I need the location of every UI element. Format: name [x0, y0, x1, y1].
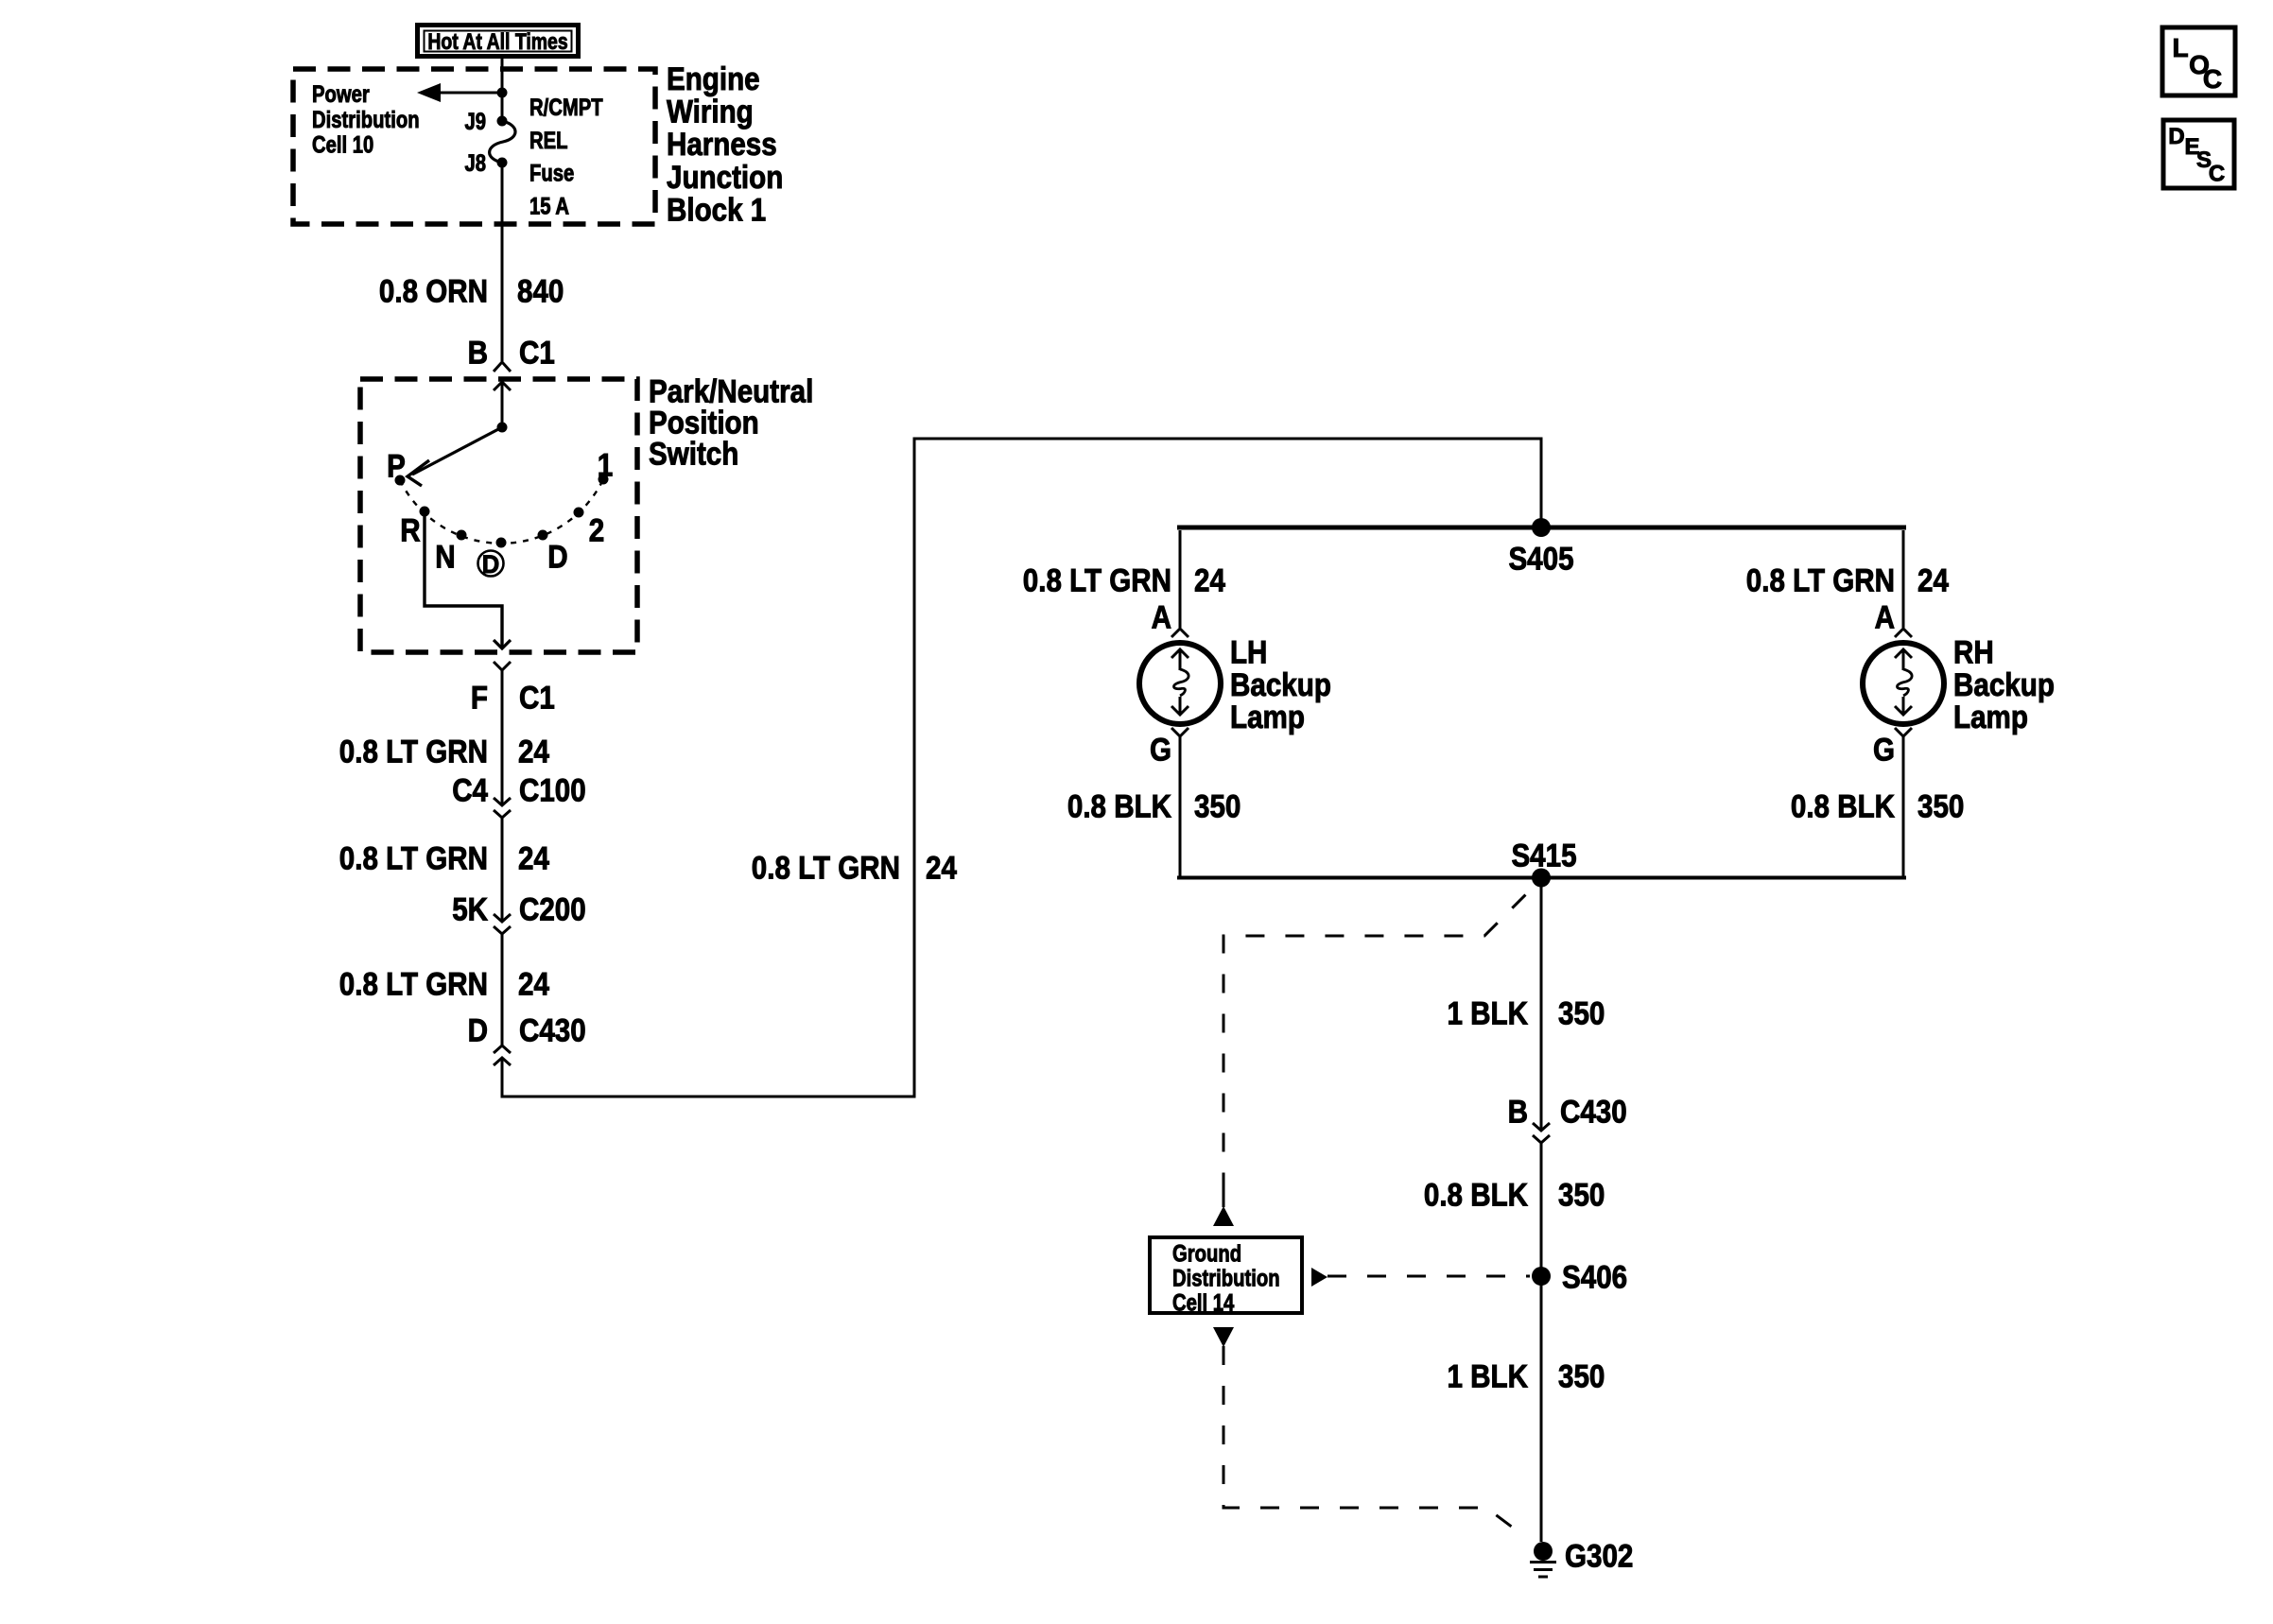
- fuse R/CMPT REL Fuse 15 A element: [490, 121, 515, 163]
- svg-text:5K: 5K: [452, 891, 488, 927]
- svg-text:Backup: Backup: [1953, 667, 2055, 703]
- wire 0.8 LT GRN 24 segment 1: [501, 670, 504, 804]
- svg-text:G: G: [1150, 732, 1171, 768]
- Park/Neutral Position Switch dashed outline: [360, 379, 637, 652]
- Ground Distribution Cell 14 box: [1150, 1237, 1302, 1313]
- svg-text:Switch: Switch: [649, 436, 738, 472]
- svg-text:A: A: [1875, 599, 1895, 635]
- contact P dot: [395, 475, 406, 486]
- switch pivot dot: [497, 423, 508, 433]
- svg-text:350: 350: [1558, 1177, 1605, 1213]
- svg-text:2: 2: [589, 512, 605, 548]
- RH lamp filament down arrow: [1895, 706, 1912, 715]
- svg-text:Distribution: Distribution: [312, 107, 420, 133]
- terminal J9 dot: [497, 116, 508, 127]
- svg-text:C200: C200: [519, 891, 586, 927]
- contact N dot: [457, 530, 467, 541]
- arrowhead at switch output: [494, 640, 511, 648]
- svg-text:350: 350: [1558, 995, 1605, 1031]
- svg-text:C: C: [2203, 64, 2222, 94]
- switch wiper arm: [412, 427, 502, 475]
- svg-text:S405: S405: [1508, 541, 1573, 577]
- dashed arc of switch positions: [400, 479, 603, 544]
- svg-text:C1: C1: [519, 680, 555, 716]
- svg-text:REL: REL: [529, 128, 568, 154]
- svg-text:Lamp: Lamp: [1953, 700, 2028, 735]
- wiper arrowhead toward P: [408, 460, 429, 486]
- lamp LH Backup Lamp: [1139, 643, 1221, 724]
- svg-text:P: P: [387, 448, 406, 484]
- contact 1 dot: [599, 475, 609, 485]
- arrowhead to Power Distribution: [417, 83, 441, 102]
- wire from contact R to switch output: [425, 511, 502, 648]
- svg-text:J8: J8: [465, 150, 487, 177]
- bottom ground rail wire: [1177, 876, 1906, 880]
- svg-text:15 A: 15 A: [529, 194, 569, 220]
- connector C200 arrowhead: [494, 914, 511, 922]
- svg-text:S415: S415: [1511, 838, 1576, 873]
- svg-text:C100: C100: [519, 772, 586, 808]
- Hot At All Times power label box: [418, 26, 579, 57]
- ground G302 dot: [1534, 1542, 1553, 1561]
- svg-text:24: 24: [926, 850, 957, 886]
- svg-text:Block 1: Block 1: [667, 193, 766, 229]
- wire to switch pivot: [501, 382, 504, 427]
- svg-text:C430: C430: [1560, 1094, 1627, 1130]
- svg-text:D: D: [482, 550, 500, 579]
- svg-text:840: 840: [517, 273, 564, 309]
- svg-text:RH: RH: [1953, 634, 1994, 670]
- svg-text:B: B: [468, 335, 488, 371]
- svg-text:N: N: [435, 539, 455, 575]
- svg-text:S406: S406: [1562, 1259, 1627, 1295]
- DESC reference box: [2163, 120, 2234, 188]
- svg-text:0.8 BLK: 0.8 BLK: [1424, 1177, 1528, 1213]
- svg-text:C: C: [2209, 162, 2225, 187]
- LH lamp filament upper lead: [1179, 649, 1182, 670]
- svg-text:0.8 BLK: 0.8 BLK: [1067, 788, 1171, 824]
- ground symbol G302: [1530, 1561, 1556, 1564]
- connector C430 chevron: [494, 1045, 511, 1053]
- svg-text:0.8 LT GRN: 0.8 LT GRN: [339, 966, 488, 1002]
- svg-text:1: 1: [598, 447, 614, 483]
- LOC reference box: [2162, 27, 2235, 95]
- connector C100 arrowhead: [494, 798, 511, 805]
- svg-text:C4: C4: [452, 772, 488, 808]
- dashed leader to S406: [1327, 1275, 1530, 1278]
- leader shaft above up arrow: [1223, 1189, 1225, 1207]
- svg-text:G: G: [1873, 732, 1895, 768]
- splice S405: [1532, 518, 1551, 537]
- svg-text:D: D: [547, 539, 567, 575]
- svg-text:Engine: Engine: [667, 61, 760, 97]
- svg-text:0.8 LT GRN: 0.8 LT GRN: [752, 850, 900, 886]
- connector chevron at LH lamp pin G: [1171, 728, 1189, 736]
- svg-text:0.8 LT GRN: 0.8 LT GRN: [1023, 562, 1171, 598]
- connector C430 arrowhead lower: [1533, 1123, 1550, 1131]
- svg-text:1 BLK: 1 BLK: [1448, 995, 1529, 1031]
- splice S406: [1532, 1267, 1551, 1286]
- wire branch to Power Distribution: [440, 92, 502, 95]
- svg-text:24: 24: [518, 734, 549, 769]
- wire 0.8 BLK 350 to ground: [1540, 1143, 1543, 1542]
- svg-text:0.8 LT GRN: 0.8 LT GRN: [1746, 562, 1895, 598]
- svg-text:B: B: [1508, 1094, 1528, 1130]
- svg-text:24: 24: [518, 840, 549, 876]
- svg-text:Power: Power: [312, 81, 370, 108]
- svg-text:LH: LH: [1230, 634, 1267, 670]
- wire from Hot At All Times to fuse: [501, 56, 504, 121]
- svg-text:0.8 ORN: 0.8 ORN: [379, 273, 488, 309]
- right arrowhead to S406: [1311, 1268, 1327, 1287]
- ground wire from RH lamp: [1902, 736, 1905, 878]
- lamp RH Backup Lamp: [1863, 643, 1944, 724]
- contact R dot: [420, 507, 430, 517]
- RH lamp filament squiggle: [1897, 669, 1912, 696]
- dashed leader from S415 to Ground Distribution: [1223, 880, 1540, 1193]
- splice S415: [1532, 869, 1551, 888]
- svg-text:Junction: Junction: [667, 160, 783, 196]
- wire to LH backup lamp: [1179, 530, 1182, 628]
- wire 0.8 LT GRN 24 segment 3: [501, 934, 504, 1045]
- down arrowhead from Ground Distribution: [1213, 1327, 1234, 1347]
- svg-text:J9: J9: [465, 109, 487, 135]
- up arrowhead to Ground Distribution: [1213, 1206, 1234, 1226]
- ground wire from LH lamp: [1179, 736, 1182, 878]
- connector C100 chevron: [494, 810, 511, 818]
- connector C430 chevron lower: [1533, 1135, 1550, 1143]
- svg-text:0.8 LT GRN: 0.8 LT GRN: [339, 734, 488, 769]
- svg-text:A: A: [1152, 599, 1171, 635]
- Engine Wiring Harness Junction Block 1 dashed outline: [293, 69, 655, 224]
- connector C430 arrowhead: [494, 1058, 511, 1065]
- svg-text:24: 24: [1194, 562, 1225, 598]
- top rail wire to backup lamps: [1177, 526, 1906, 530]
- contact D2 dot: [538, 530, 548, 541]
- junction dot at fuse feed: [497, 88, 508, 98]
- svg-text:D: D: [468, 1012, 488, 1048]
- svg-text:D: D: [2168, 124, 2184, 149]
- connector chevron at RH lamp pin G: [1895, 728, 1912, 736]
- LH lamp filament up arrow: [1171, 649, 1189, 658]
- svg-text:350: 350: [1558, 1358, 1605, 1394]
- svg-text:1 BLK: 1 BLK: [1448, 1358, 1529, 1394]
- circled D position: [478, 551, 504, 577]
- wire 0.8 ORN 840: [501, 166, 504, 361]
- svg-text:24: 24: [1917, 562, 1949, 598]
- svg-text:0.8 BLK: 0.8 BLK: [1791, 788, 1895, 824]
- wire 0.8 LT GRN 24 segment 2: [501, 818, 504, 922]
- svg-text:L: L: [2172, 33, 2188, 62]
- LH lamp filament lower lead: [1179, 697, 1182, 714]
- svg-text:F: F: [471, 680, 488, 716]
- connector C1 chevron (female): [494, 362, 511, 371]
- svg-text:C1: C1: [519, 335, 555, 371]
- RH lamp filament lower lead: [1902, 697, 1905, 714]
- RH lamp filament up arrow: [1895, 649, 1912, 658]
- wire 0.8 LT GRN 24 run to S405: [502, 439, 1541, 1097]
- svg-text:350: 350: [1194, 788, 1241, 824]
- svg-text:Cell 14: Cell 14: [1172, 1290, 1234, 1317]
- LH lamp filament squiggle: [1173, 669, 1189, 696]
- svg-text:Cell 10: Cell 10: [312, 132, 373, 159]
- svg-text:Harness: Harness: [667, 127, 777, 163]
- wire to RH backup lamp: [1902, 530, 1905, 628]
- connector chevron at RH lamp pin A: [1895, 629, 1912, 637]
- contact 2 dot: [574, 508, 584, 518]
- svg-text:24: 24: [518, 966, 549, 1002]
- connector C200 chevron: [494, 926, 511, 934]
- LH lamp filament down arrow: [1171, 706, 1189, 715]
- svg-text:R/CMPT: R/CMPT: [529, 95, 603, 121]
- dashed leader from Ground Distribution to G302: [1223, 1346, 1524, 1536]
- connector C1 arrowhead (male) into switch: [494, 382, 511, 390]
- svg-text:Wiring: Wiring: [667, 95, 754, 130]
- svg-text:Ground: Ground: [1172, 1241, 1241, 1268]
- RH lamp filament upper lead: [1902, 649, 1905, 670]
- contact D dot: [496, 538, 507, 548]
- svg-text:350: 350: [1917, 788, 1964, 824]
- connector C1 chevron below switch: [494, 662, 511, 670]
- wire 1 BLK 350 from S415: [1540, 880, 1543, 1131]
- svg-text:R: R: [400, 512, 420, 548]
- svg-text:0.8 LT GRN: 0.8 LT GRN: [339, 840, 488, 876]
- terminal J8 dot: [497, 158, 508, 168]
- svg-text:Distribution: Distribution: [1172, 1266, 1280, 1292]
- svg-text:C430: C430: [519, 1012, 586, 1048]
- connector chevron at LH lamp pin A: [1171, 629, 1189, 637]
- svg-text:Lamp: Lamp: [1230, 700, 1305, 735]
- svg-text:Fuse: Fuse: [529, 161, 574, 187]
- svg-text:G302: G302: [1565, 1538, 1633, 1574]
- svg-text:Backup: Backup: [1230, 667, 1331, 703]
- svg-text:Hot At All Times: Hot At All Times: [427, 29, 567, 55]
